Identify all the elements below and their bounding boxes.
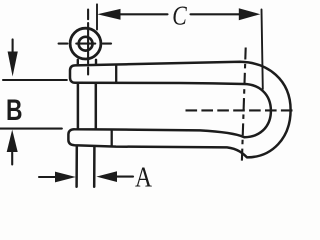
svg-text:A: A <box>135 161 152 190</box>
svg-text:B: B <box>6 94 23 127</box>
svg-text:C: C <box>172 1 187 31</box>
